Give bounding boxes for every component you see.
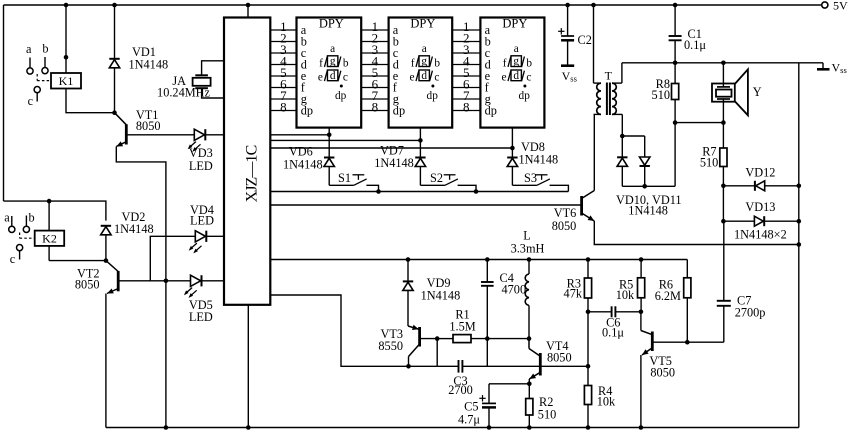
wire IC top pin to 5V	[246, 3, 251, 18]
svg-text:L: L	[523, 229, 531, 243]
svg-text:1N4148: 1N4148	[283, 158, 323, 172]
svg-text:dp: dp	[335, 90, 347, 102]
svg-text:T: T	[605, 69, 613, 83]
diode VD2 1N4148	[101, 210, 154, 261]
svg-text:1.5M: 1.5M	[449, 320, 475, 334]
wire IC pin to VT3 collector	[270, 295, 437, 366]
svg-text:DPY: DPY	[502, 17, 527, 31]
diode VD12	[723, 166, 801, 191]
wire bottom ground rail	[106, 427, 799, 429]
svg-text:6.2M: 6.2M	[655, 289, 681, 303]
svg-text:XJZ—1C: XJZ—1C	[244, 145, 261, 202]
svg-text:1N4148: 1N4148	[421, 289, 461, 303]
svg-text:C2: C2	[578, 33, 592, 47]
svg-text:f: f	[319, 58, 323, 70]
svg-text:dp: dp	[519, 90, 531, 102]
svg-text:10.24MHz: 10.24MHz	[157, 86, 210, 100]
switch K2 contacts a b c	[9, 216, 35, 260]
transistor VT4 8050	[529, 339, 572, 379]
svg-text:c: c	[343, 72, 348, 84]
diode VD10 1N4148	[617, 134, 627, 187]
svg-text:dp: dp	[427, 90, 439, 102]
wire VT4 emitter node	[489, 379, 532, 399]
switch K1 contacts a b c	[27, 57, 51, 102]
diode VD13 1N4148x2	[721, 186, 801, 242]
svg-text:8: 8	[280, 100, 287, 115]
svg-text:LED: LED	[189, 310, 213, 324]
svg-text:a: a	[330, 43, 335, 55]
transistor VT1 8050	[112, 108, 160, 147]
svg-text:Y: Y	[753, 85, 762, 99]
resistor R3 47k	[564, 260, 592, 367]
pins 1-8 of DPY2	[361, 19, 405, 118]
wire VT6 emitter to right rail	[594, 221, 801, 247]
svg-text:LED: LED	[189, 159, 213, 173]
svg-text:S3: S3	[524, 171, 537, 185]
resistor R5 10k	[616, 260, 645, 315]
switch S1	[329, 171, 367, 185]
svg-text:b: b	[434, 58, 440, 70]
wire VT2 emitter to ground rail	[105, 294, 107, 428]
svg-text:8050: 8050	[136, 119, 161, 133]
svg-text:dp: dp	[485, 104, 497, 118]
svg-text:VT6: VT6	[554, 206, 577, 220]
svg-text:b: b	[343, 58, 349, 70]
wire left rail	[3, 5, 5, 201]
wire VT1 emitter drop to rail	[164, 281, 169, 430]
svg-text:d: d	[513, 70, 519, 82]
svg-text:f: f	[503, 58, 507, 70]
svg-text:510: 510	[700, 156, 718, 170]
node b (K1)	[42, 42, 48, 56]
resistor R8 510	[652, 63, 679, 125]
wire key common bus	[270, 191, 568, 193]
display DPY1	[297, 17, 362, 128]
node 5V terminal	[822, 0, 848, 13]
capacitor C1 0.1u	[669, 3, 707, 65]
svg-text:8550: 8550	[378, 339, 403, 353]
svg-text:2700: 2700	[448, 383, 473, 397]
wire VT3 collector drop	[406, 357, 411, 369]
wire DPY3 cathode drop	[511, 128, 513, 158]
wire DPY1 cathode drop	[328, 128, 330, 158]
wire VT1 base to LED VD3	[126, 134, 194, 136]
resistor R7 510	[700, 123, 727, 189]
svg-text:b: b	[42, 42, 48, 56]
LED VD5	[184, 275, 224, 324]
inductor L 3.3mH	[511, 229, 545, 339]
diode VD8 1N4148	[507, 140, 558, 185]
svg-text:8050: 8050	[552, 219, 577, 233]
node b (K2)	[29, 211, 35, 225]
svg-text:1N4148: 1N4148	[628, 204, 668, 218]
wire left rail to K2/VD2	[4, 199, 106, 221]
svg-text:DPY: DPY	[410, 17, 435, 31]
svg-text:47k: 47k	[564, 287, 583, 301]
display DPY2	[389, 17, 453, 128]
svg-text:c: c	[434, 72, 439, 84]
svg-text:5V: 5V	[833, 0, 848, 13]
svg-text:c: c	[10, 252, 16, 266]
node a (K2)	[4, 211, 10, 225]
IC U1 XJZ-1C	[224, 18, 270, 305]
wire S2 to common bus	[458, 185, 479, 194]
svg-text:a: a	[514, 43, 519, 55]
wire VT1 emitter to VD5 node	[116, 147, 166, 281]
svg-text:dp: dp	[393, 104, 405, 118]
svg-text:f: f	[411, 58, 415, 70]
ground Vss (C2)	[561, 40, 577, 83]
svg-text:S1: S1	[338, 171, 351, 185]
resistor R2 510	[526, 395, 557, 430]
svg-text:a: a	[26, 42, 32, 56]
svg-text:VD3: VD3	[189, 146, 213, 160]
wire riser to VD4 line	[150, 236, 195, 280]
crystal JA 10.24MHz	[157, 61, 224, 100]
svg-text:0.1μ: 0.1μ	[602, 326, 624, 340]
svg-text:g: g	[330, 56, 336, 68]
svg-text:1N4148×2: 1N4148×2	[734, 228, 787, 242]
svg-text:e: e	[409, 72, 414, 84]
switch S3	[512, 171, 550, 185]
transistor VT2 8050	[75, 258, 118, 293]
svg-text:g: g	[421, 56, 427, 68]
wire S1 to common bus	[366, 185, 380, 194]
svg-text:LED: LED	[190, 214, 214, 228]
wire VT2 base line / VD5 line	[118, 279, 190, 284]
svg-text:8: 8	[463, 100, 470, 115]
svg-text:DPY: DPY	[319, 17, 344, 31]
LED VD3	[188, 129, 224, 173]
diode VD7 1N4148	[374, 144, 425, 186]
svg-text:8050: 8050	[547, 351, 572, 365]
wire bus DPY2 select (y=140.4)	[270, 138, 422, 143]
svg-text:K2: K2	[42, 231, 57, 245]
node c (K2)	[10, 252, 16, 266]
transistor VT5 8050	[641, 312, 675, 380]
relay K1	[51, 73, 81, 89]
svg-text:b: b	[526, 58, 532, 70]
svg-text:8050: 8050	[75, 278, 100, 292]
svg-text:10k: 10k	[597, 395, 616, 409]
svg-text:3.3mH: 3.3mH	[511, 242, 545, 256]
svg-text:b: b	[29, 211, 35, 225]
capacitor C6 0.1u	[588, 306, 641, 339]
diode VD6 1N4148	[283, 145, 334, 186]
svg-text:VD6: VD6	[289, 145, 313, 159]
svg-text:4700: 4700	[502, 283, 527, 297]
svg-text:dp: dp	[301, 104, 313, 118]
switch S2	[420, 171, 458, 185]
svg-text:d: d	[421, 70, 427, 82]
svg-text:4.7μ: 4.7μ	[458, 413, 480, 427]
capacitor C4 4700	[481, 260, 526, 339]
wire 5V top rail	[4, 4, 822, 6]
display DPY3	[480, 17, 544, 128]
speaker Y	[712, 61, 762, 123]
capacitor C3 2700	[437, 339, 487, 397]
wire DPY2 cathode drop	[419, 128, 421, 158]
wire K1 feed	[64, 3, 69, 73]
svg-text:e: e	[501, 72, 506, 84]
capacitor C5 4.7u	[458, 384, 496, 430]
label VD10 VD11	[616, 193, 682, 218]
svg-text:c: c	[28, 94, 34, 108]
svg-text:c: c	[526, 72, 531, 84]
svg-text:g: g	[513, 56, 519, 68]
svg-text:510: 510	[538, 407, 556, 421]
wire right rail	[798, 63, 800, 428]
transistor VT3 8550	[378, 325, 437, 357]
svg-text:a: a	[4, 211, 10, 225]
wire bus DPY3 select (y=148.0)	[270, 146, 514, 151]
wire VT4 base line	[462, 364, 590, 369]
wire Vss rail	[622, 62, 823, 64]
diode VD11 1N4148	[622, 136, 650, 189]
LED VD4	[189, 203, 224, 253]
svg-text:d: d	[330, 70, 336, 82]
capacitor C7 2700p	[717, 221, 766, 342]
svg-text:2700p: 2700p	[735, 306, 766, 320]
svg-text:S2: S2	[430, 171, 443, 185]
pins 1-8 of DPY3	[452, 19, 497, 118]
node a (K1)	[26, 42, 32, 56]
wire K2 to VD2 node	[49, 260, 106, 262]
wire R8 to speaker bottom	[675, 120, 726, 125]
wire VT5 base line	[652, 341, 724, 343]
svg-text:K1: K1	[59, 74, 74, 88]
diode VD9 1N4148	[403, 260, 460, 327]
wire IC bottom pin to ground	[246, 305, 251, 430]
svg-text:1N4148: 1N4148	[114, 222, 154, 236]
resistor R6 6.2M	[655, 260, 691, 345]
svg-text:1N4148: 1N4148	[519, 153, 559, 167]
svg-text:C5: C5	[464, 399, 478, 413]
svg-text:VD13: VD13	[745, 200, 775, 214]
wire VD10/VD11 bottoms	[622, 123, 675, 187]
svg-text:8050: 8050	[650, 366, 675, 380]
diode VD1 1N4148	[109, 3, 168, 113]
svg-text:8: 8	[372, 100, 379, 115]
ground Vss right	[817, 61, 847, 76]
resistor R1 1.5M	[435, 308, 531, 343]
wire IC to VT6 base bus	[270, 204, 581, 206]
wire VT5 emitter to rail	[639, 355, 644, 430]
wire bus DPY1 select (y=134.8)	[270, 133, 331, 138]
capacitor C2	[558, 3, 592, 47]
transistor VT6 8050	[552, 191, 595, 234]
node c (K1)	[28, 94, 34, 108]
svg-text:1N4148: 1N4148	[129, 58, 169, 72]
wire S3 to common bus	[550, 185, 569, 191]
svg-text:e: e	[318, 72, 323, 84]
transformer T	[591, 3, 622, 136]
svg-text:a: a	[422, 43, 427, 55]
wire IC output bus	[270, 257, 687, 262]
wire VT6 collector to transformer	[593, 114, 595, 190]
svg-text:0.1μ: 0.1μ	[684, 38, 706, 52]
svg-text:10k: 10k	[616, 288, 635, 302]
pins 1-8 of DPY1	[270, 19, 313, 118]
svg-text:VD12: VD12	[745, 166, 775, 180]
relay K2	[35, 201, 64, 261]
resistor R4 10k	[584, 366, 616, 430]
svg-text:1N4148: 1N4148	[374, 156, 414, 170]
wire K1 to VD1 node	[66, 89, 115, 113]
svg-text:510: 510	[652, 88, 670, 102]
